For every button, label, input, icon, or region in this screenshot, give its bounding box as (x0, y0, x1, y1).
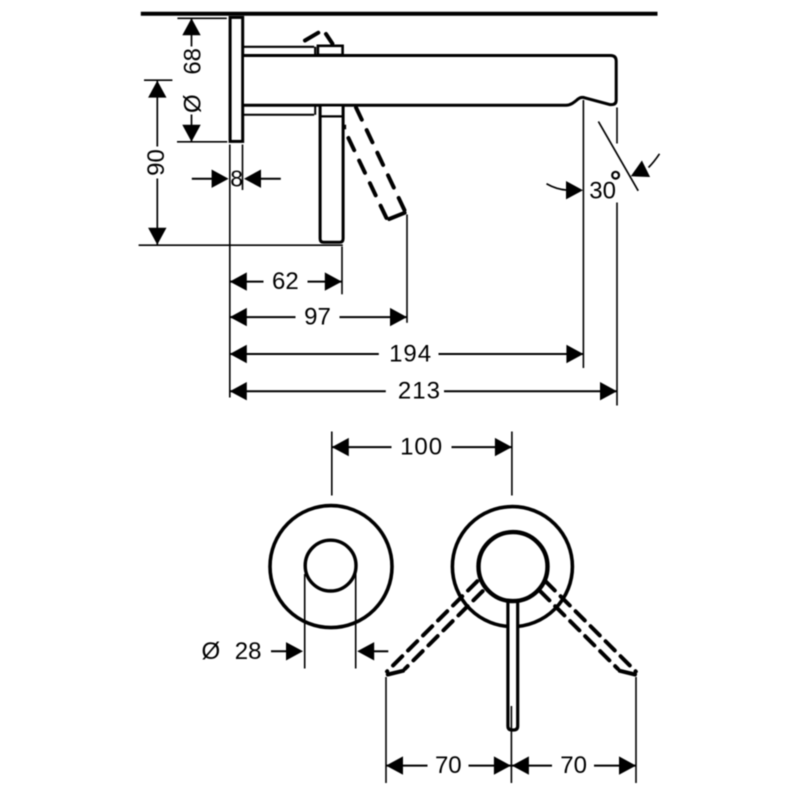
dim 213 left arrow (230, 382, 247, 400)
dim 28 left arrow (286, 642, 303, 660)
right escutcheon outer circle (452, 507, 572, 627)
dim 97 line (230, 316, 407, 318)
dashed swung lever right band lower edge (540, 591, 618, 669)
dim 97 left arrow (230, 308, 247, 326)
svg-text:100: 100 (400, 434, 443, 461)
handle dome circle (479, 532, 548, 601)
dim 28 right tail (373, 650, 389, 652)
dashed swung lever left band lower edge (405, 591, 483, 669)
svg-text:70: 70 (560, 752, 587, 779)
upper collar (318, 46, 343, 55)
dim 68 top arrow (182, 18, 200, 35)
dim 28 right extension (355, 574, 357, 669)
dim 70 center left arrow (512, 756, 529, 774)
30 deg right arrow (631, 161, 650, 178)
spout lower sleeve tick (314, 106, 316, 115)
30 deg left leader curve (547, 184, 568, 190)
dim 62 line (230, 281, 342, 283)
dim 213 line (230, 390, 617, 392)
dim 8 right arrow (244, 170, 261, 188)
dim 8 left arrow (212, 170, 229, 188)
dashed lever end cap (389, 213, 404, 219)
spout lower sleeve line (244, 114, 314, 116)
30 deg slant line (598, 122, 638, 191)
dim 194 right arrow (566, 345, 583, 363)
dim 62 left arrow (230, 272, 247, 290)
dim 70 lines (386, 765, 636, 767)
spout tip extension line lower (616, 203, 618, 406)
spout upper sleeve line (244, 46, 314, 48)
dim 194 line (230, 353, 584, 355)
dim 8 left tail (192, 178, 214, 180)
plate left extension line (229, 145, 231, 398)
wall line (141, 12, 658, 16)
handle set-screw nub (344, 125, 347, 130)
dim 62 right arrow (325, 272, 342, 290)
spout tip extension line upper (616, 108, 618, 144)
svg-text:213: 213 (398, 378, 441, 405)
dim 100 line (332, 446, 512, 448)
dim 90 bottom arrow (148, 228, 166, 245)
dim 68 bottom arrow (182, 125, 200, 142)
handle lever bar (front view) (508, 598, 518, 730)
wall plate escutcheon (side view) (230, 17, 243, 141)
dim 70 center right arrow (494, 756, 511, 774)
svg-text:62: 62 (272, 268, 299, 295)
svg-text:90: 90 (143, 149, 170, 176)
dim 100 left extension (331, 432, 333, 496)
dashed raised lever edge above spout (326, 34, 332, 44)
dim 68 line (191, 19, 193, 142)
dim 68 top tick (177, 17, 226, 19)
dim 28 left extension (304, 574, 306, 669)
dim 90 top arrow (148, 81, 166, 98)
dim 8 right tail (260, 178, 281, 180)
dashed lever swung position - left edge (348, 138, 387, 220)
dim 28 left tail (271, 650, 288, 652)
dim 68 bottom tick (177, 141, 227, 143)
dashed swung lever left band upper edge (387, 581, 477, 671)
aerator extension line (582, 100, 584, 368)
svg-text:70: 70 (435, 752, 462, 779)
dashed swung lever right end cap (620, 671, 635, 675)
plate right extension line (242, 145, 244, 191)
handle joint line (320, 115, 343, 117)
svg-text:194: 194 (389, 341, 432, 368)
30 deg right leader curve (649, 154, 660, 168)
dim 70 left extension (385, 677, 387, 783)
dim 100 right arrow (495, 438, 512, 456)
dim 90 line (156, 81, 158, 245)
dim 90 label (143, 147, 170, 179)
dim 70 right extension (635, 677, 637, 783)
svg-text:Ø 68: Ø 68 (180, 48, 207, 113)
spout body (244, 56, 616, 106)
dim 68 label (180, 47, 207, 115)
dim 70 left arrow (386, 756, 403, 774)
30 deg left arrow (566, 181, 583, 199)
left escutcheon outer circle (270, 506, 392, 628)
dim 90 bottom tick (long) (139, 244, 343, 246)
handle lever (side view) (320, 107, 343, 243)
left escutcheon inner circle (305, 540, 356, 591)
dashed raised lever cap above spout (305, 33, 318, 41)
dashed lever swung position - right edge (356, 108, 406, 214)
dim 100 left arrow (332, 438, 349, 456)
spout upper sleeve tick (314, 47, 316, 55)
svg-text:Ø 28: Ø 28 (201, 638, 261, 665)
dim 97 right arrow (390, 308, 407, 326)
dashed swung lever right band upper edge (546, 581, 636, 671)
dim 100 right extension (511, 432, 513, 496)
svg-text:97: 97 (304, 304, 331, 331)
svg-text:30: 30 (589, 177, 616, 204)
dashed lever extension line (406, 215, 408, 323)
dim 90 top tick (144, 79, 172, 81)
dim 70 center extension (510, 706, 512, 783)
dim 28 right arrow (357, 642, 374, 660)
dim 194 left arrow (230, 345, 247, 363)
handle extension line (341, 247, 343, 295)
svg-text:8: 8 (230, 166, 243, 192)
dim 213 right arrow (600, 382, 617, 400)
dashed swung lever left end cap (388, 671, 403, 675)
dim 70 right arrow (619, 756, 636, 774)
degree symbol (612, 172, 619, 179)
